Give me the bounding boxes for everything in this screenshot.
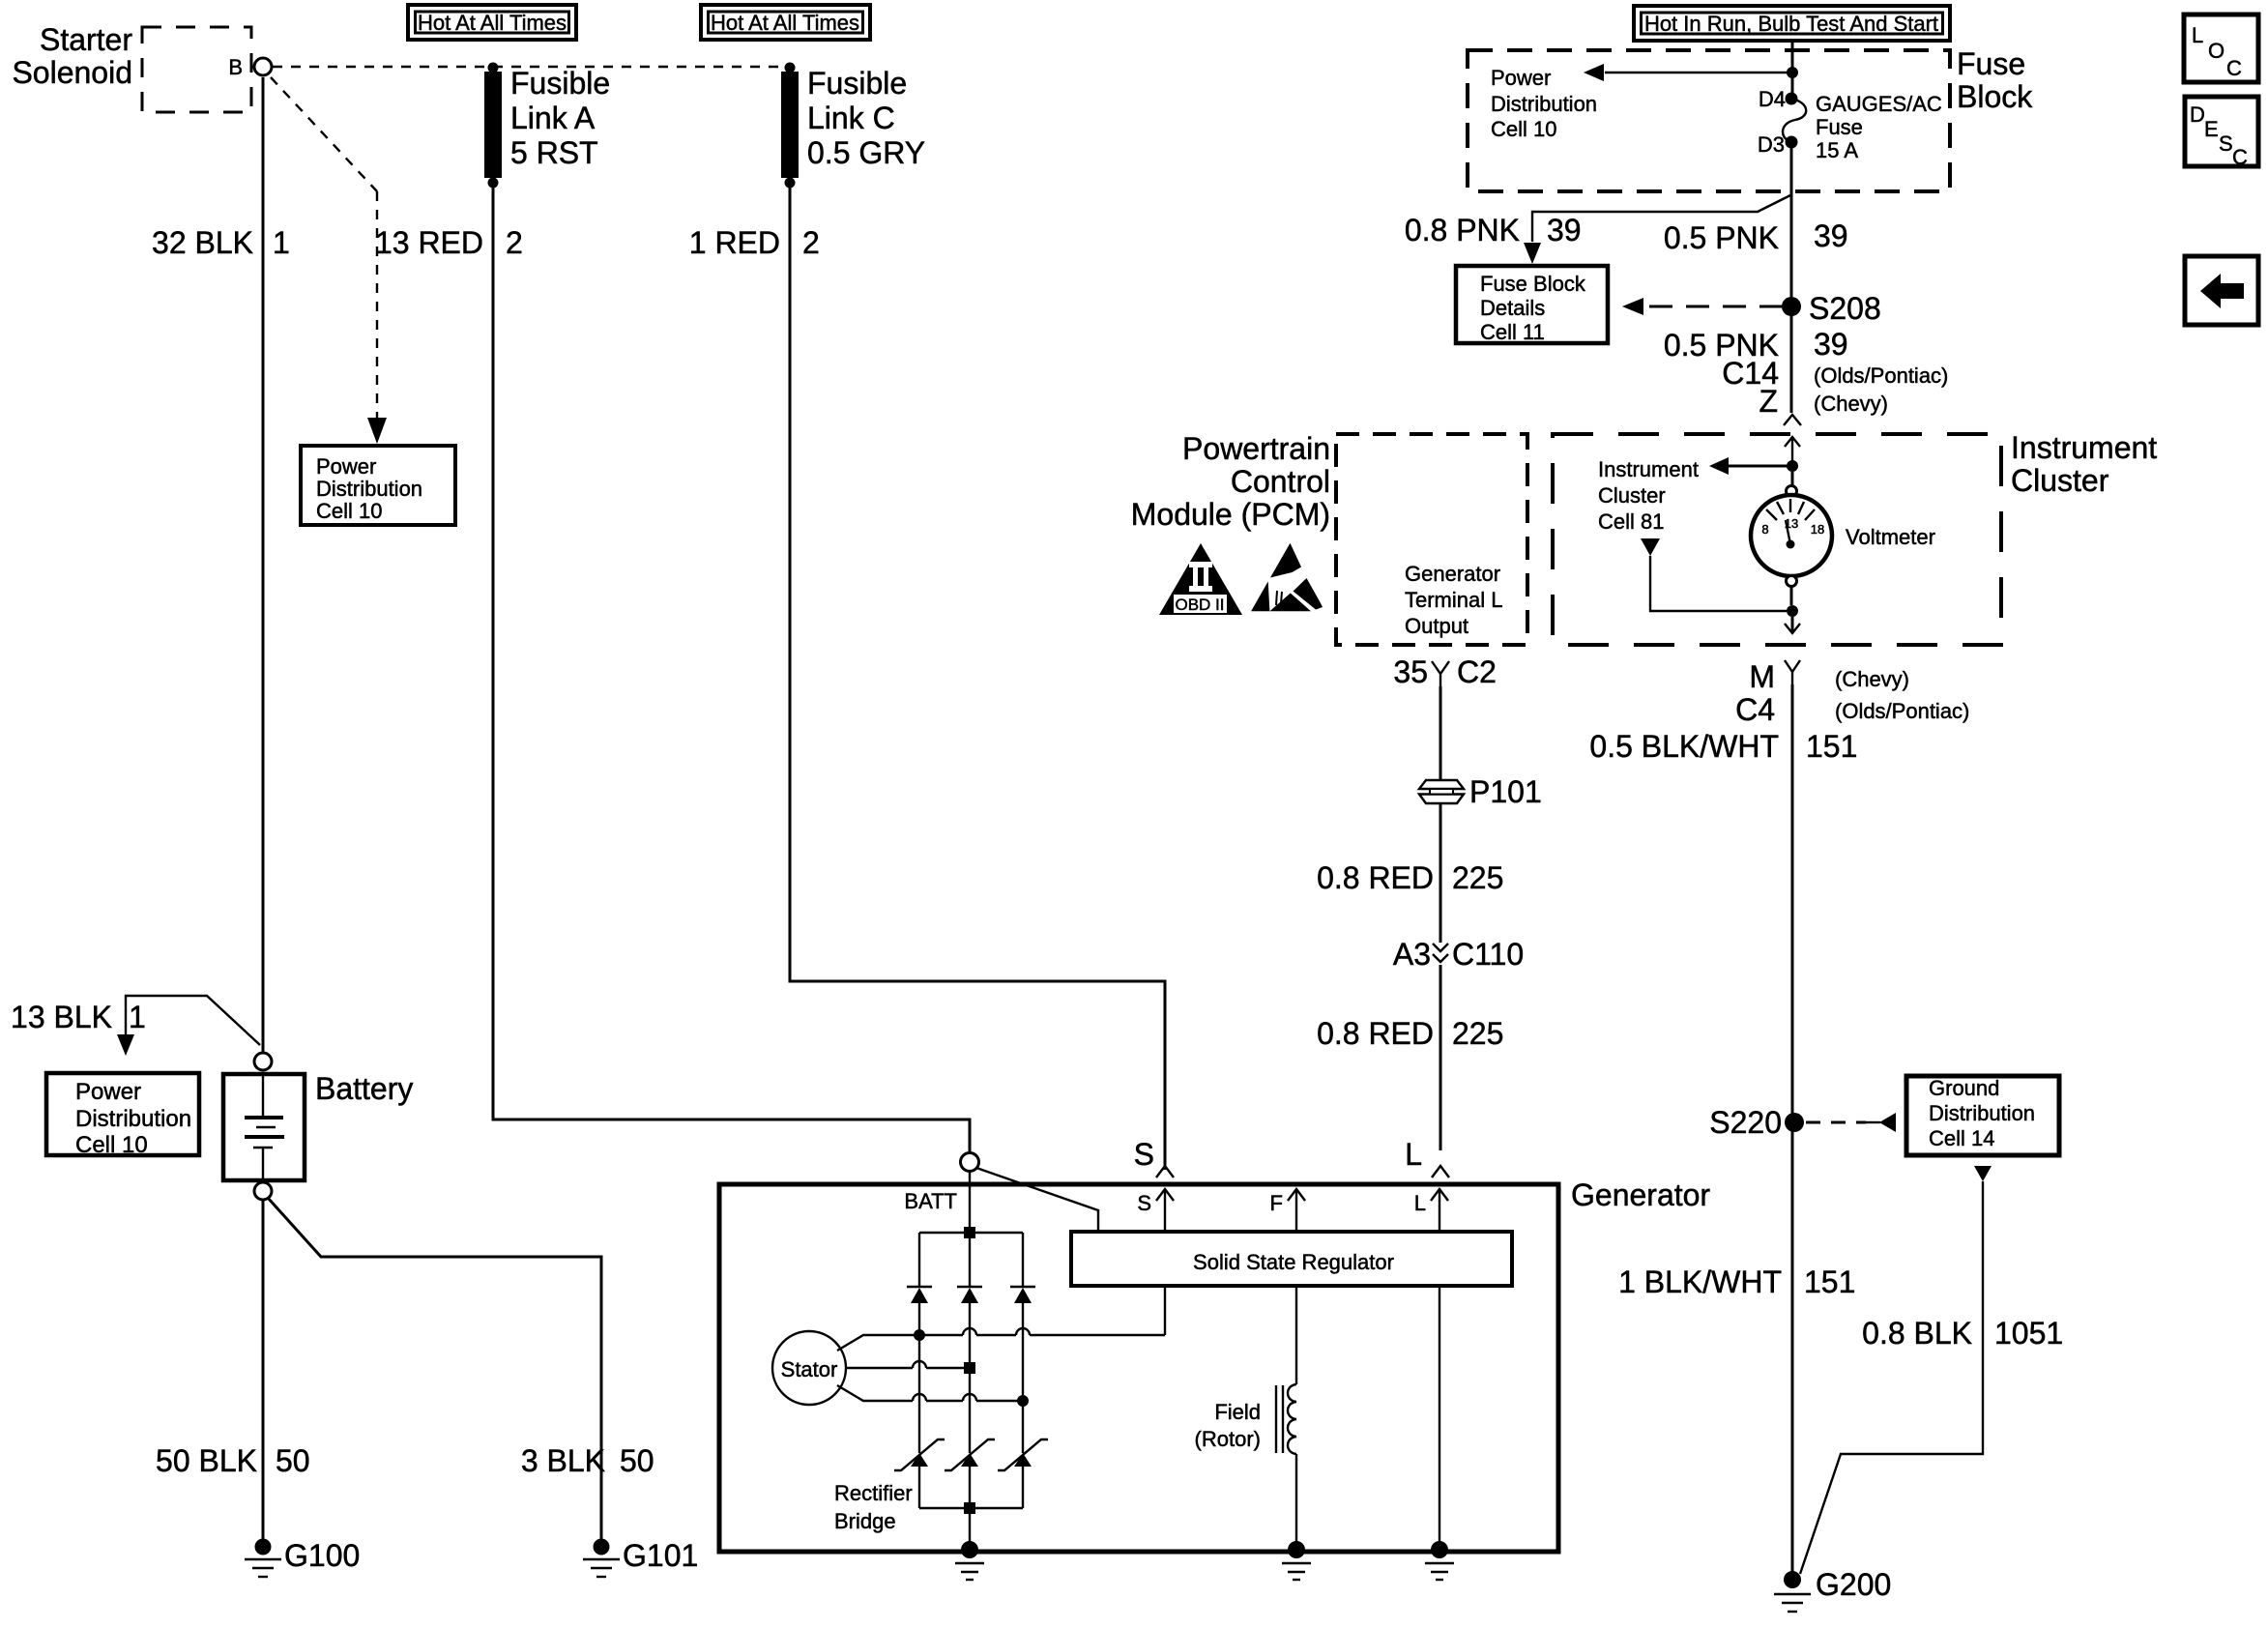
svg-text:Details: Details <box>1480 296 1545 320</box>
svg-text:18: 18 <box>1811 522 1824 537</box>
svg-text:Output: Output <box>1405 614 1468 638</box>
svg-text:Rectifier: Rectifier <box>834 1481 913 1505</box>
svg-text:D3: D3 <box>1758 132 1785 157</box>
svg-text:Starter: Starter <box>40 22 132 57</box>
svg-text:1 BLK/WHT: 1 BLK/WHT <box>1618 1265 1782 1299</box>
svg-text:Fuse Block: Fuse Block <box>1480 272 1586 296</box>
svg-text:Fuse: Fuse <box>1957 46 2025 81</box>
svg-text:Fusible: Fusible <box>510 66 610 101</box>
svg-text:S: S <box>2219 131 2233 156</box>
svg-text:151: 151 <box>1804 1265 1855 1299</box>
svg-text:L: L <box>1414 1191 1426 1215</box>
svg-text:35: 35 <box>1393 654 1428 689</box>
svg-text:G200: G200 <box>1816 1567 1891 1602</box>
svg-text:3 BLK: 3 BLK <box>521 1443 605 1478</box>
svg-text:Voltmeter: Voltmeter <box>1846 525 1935 549</box>
svg-text:2: 2 <box>802 225 820 260</box>
svg-text:S: S <box>1134 1137 1154 1172</box>
svg-text:Link A: Link A <box>510 101 596 135</box>
svg-text:Solenoid: Solenoid <box>12 55 132 90</box>
svg-text:A3: A3 <box>1393 937 1431 972</box>
svg-text:Instrument: Instrument <box>1598 457 1699 481</box>
svg-text:Block: Block <box>1957 79 2033 114</box>
svg-text:225: 225 <box>1452 860 1503 895</box>
svg-text:C4: C4 <box>1735 692 1775 727</box>
svg-text:8: 8 <box>1761 522 1768 537</box>
svg-text:1051: 1051 <box>1994 1316 2063 1351</box>
svg-text:13 BLK: 13 BLK <box>11 1000 112 1034</box>
svg-text:C: C <box>2232 145 2248 169</box>
svg-text:0.5 GRY: 0.5 GRY <box>807 135 925 170</box>
svg-text:50: 50 <box>276 1443 310 1478</box>
svg-text:Cell 81: Cell 81 <box>1598 509 1664 534</box>
svg-text:0.8 RED: 0.8 RED <box>1317 1016 1434 1051</box>
svg-text:Distribution: Distribution <box>1929 1101 2035 1125</box>
svg-text:Hot In Run, Bulb Test And Star: Hot In Run, Bulb Test And Start <box>1644 12 1938 36</box>
svg-text:39: 39 <box>1547 213 1582 247</box>
svg-text:Instrument: Instrument <box>2011 430 2157 465</box>
svg-text:S: S <box>1137 1191 1151 1215</box>
svg-text:L: L <box>2192 23 2203 47</box>
svg-text:Power: Power <box>1491 66 1551 90</box>
svg-text:BATT: BATT <box>904 1189 957 1213</box>
svg-text:Cell 10: Cell 10 <box>1491 117 1556 141</box>
svg-text:Cluster: Cluster <box>1598 483 1666 508</box>
svg-text:50: 50 <box>620 1443 654 1478</box>
svg-text:Cell 10: Cell 10 <box>75 1132 148 1158</box>
svg-text:Bridge: Bridge <box>834 1509 896 1533</box>
svg-text:Powertrain: Powertrain <box>1182 431 1330 466</box>
svg-text:Battery: Battery <box>315 1071 413 1106</box>
svg-text:Power: Power <box>75 1079 141 1105</box>
svg-text:0.8 RED: 0.8 RED <box>1317 860 1434 895</box>
svg-text:5 RST: 5 RST <box>510 135 598 170</box>
svg-text:Fuse: Fuse <box>1816 115 1863 139</box>
svg-text:(Rotor): (Rotor) <box>1195 1427 1261 1451</box>
svg-text:GAUGES/AC: GAUGES/AC <box>1816 92 1942 116</box>
svg-text:(Olds/Pontiac): (Olds/Pontiac) <box>1835 699 1969 723</box>
svg-text:D4: D4 <box>1759 87 1786 111</box>
svg-text:Cell 14: Cell 14 <box>1929 1126 1994 1150</box>
svg-text:O: O <box>2208 39 2224 63</box>
svg-text:Cell 11: Cell 11 <box>1480 320 1545 344</box>
svg-text:Distribution: Distribution <box>316 477 422 501</box>
svg-text:39: 39 <box>1814 327 1848 362</box>
svg-text:C110: C110 <box>1452 937 1524 972</box>
svg-text:1: 1 <box>273 225 290 260</box>
svg-text:13 RED: 13 RED <box>375 225 483 260</box>
svg-text:M: M <box>1749 659 1775 694</box>
svg-text:Link C: Link C <box>807 101 895 135</box>
svg-text:Generator: Generator <box>1571 1177 1710 1212</box>
svg-text:Fusible: Fusible <box>807 66 907 101</box>
svg-text:P101: P101 <box>1469 774 1542 809</box>
svg-text:Solid State Regulator: Solid State Regulator <box>1193 1250 1394 1274</box>
svg-text:Field: Field <box>1214 1400 1261 1424</box>
svg-text:OBD II: OBD II <box>1175 596 1224 614</box>
svg-text:C: C <box>2226 56 2242 80</box>
svg-text:C2: C2 <box>1457 654 1497 689</box>
svg-text:D: D <box>2190 102 2205 127</box>
svg-text:Stator: Stator <box>781 1357 838 1381</box>
svg-text:0.8 PNK: 0.8 PNK <box>1405 213 1520 247</box>
svg-text:0.8 BLK: 0.8 BLK <box>1862 1316 1972 1351</box>
svg-text:Hot At All Times: Hot At All Times <box>418 11 567 35</box>
svg-text:Control: Control <box>1231 464 1330 499</box>
svg-text:1: 1 <box>129 1000 146 1034</box>
svg-text:Z: Z <box>1759 384 1778 419</box>
svg-text:Cell 10: Cell 10 <box>316 499 382 523</box>
svg-text:Distribution: Distribution <box>1491 92 1597 116</box>
svg-text:B: B <box>228 55 243 79</box>
svg-text:2: 2 <box>506 225 523 260</box>
svg-text:0.5 PNK: 0.5 PNK <box>1664 220 1779 255</box>
svg-text:G100: G100 <box>284 1538 360 1573</box>
svg-text:50 BLK: 50 BLK <box>156 1443 257 1478</box>
svg-text:Ground: Ground <box>1929 1076 1999 1100</box>
svg-text:Generator: Generator <box>1405 562 1500 586</box>
svg-text:(Chevy): (Chevy) <box>1835 667 1909 691</box>
svg-text:L: L <box>1405 1137 1422 1172</box>
svg-text:Module (PCM): Module (PCM) <box>1131 497 1330 532</box>
svg-text:1 RED: 1 RED <box>689 225 780 260</box>
svg-text:S220: S220 <box>1709 1105 1782 1140</box>
svg-text:225: 225 <box>1452 1016 1503 1051</box>
svg-text:39: 39 <box>1814 218 1848 253</box>
svg-text:Hot At All Times: Hot At All Times <box>711 11 859 35</box>
svg-text:(Chevy): (Chevy) <box>1814 392 1888 416</box>
svg-text:15 A: 15 A <box>1816 138 1858 162</box>
svg-text:0.5 BLK/WHT: 0.5 BLK/WHT <box>1589 729 1779 764</box>
svg-text:Terminal L: Terminal L <box>1405 588 1502 612</box>
svg-text:151: 151 <box>1806 729 1857 764</box>
svg-text:F: F <box>1270 1191 1283 1215</box>
svg-text:32 BLK: 32 BLK <box>152 225 253 260</box>
svg-text:Power: Power <box>316 454 376 479</box>
svg-text:Cluster: Cluster <box>2011 463 2109 498</box>
svg-text:Distribution: Distribution <box>75 1106 191 1132</box>
svg-text:S208: S208 <box>1809 291 1881 326</box>
svg-text:E: E <box>2204 117 2219 141</box>
svg-text:G101: G101 <box>623 1538 698 1573</box>
svg-text:(Olds/Pontiac): (Olds/Pontiac) <box>1814 363 1948 388</box>
